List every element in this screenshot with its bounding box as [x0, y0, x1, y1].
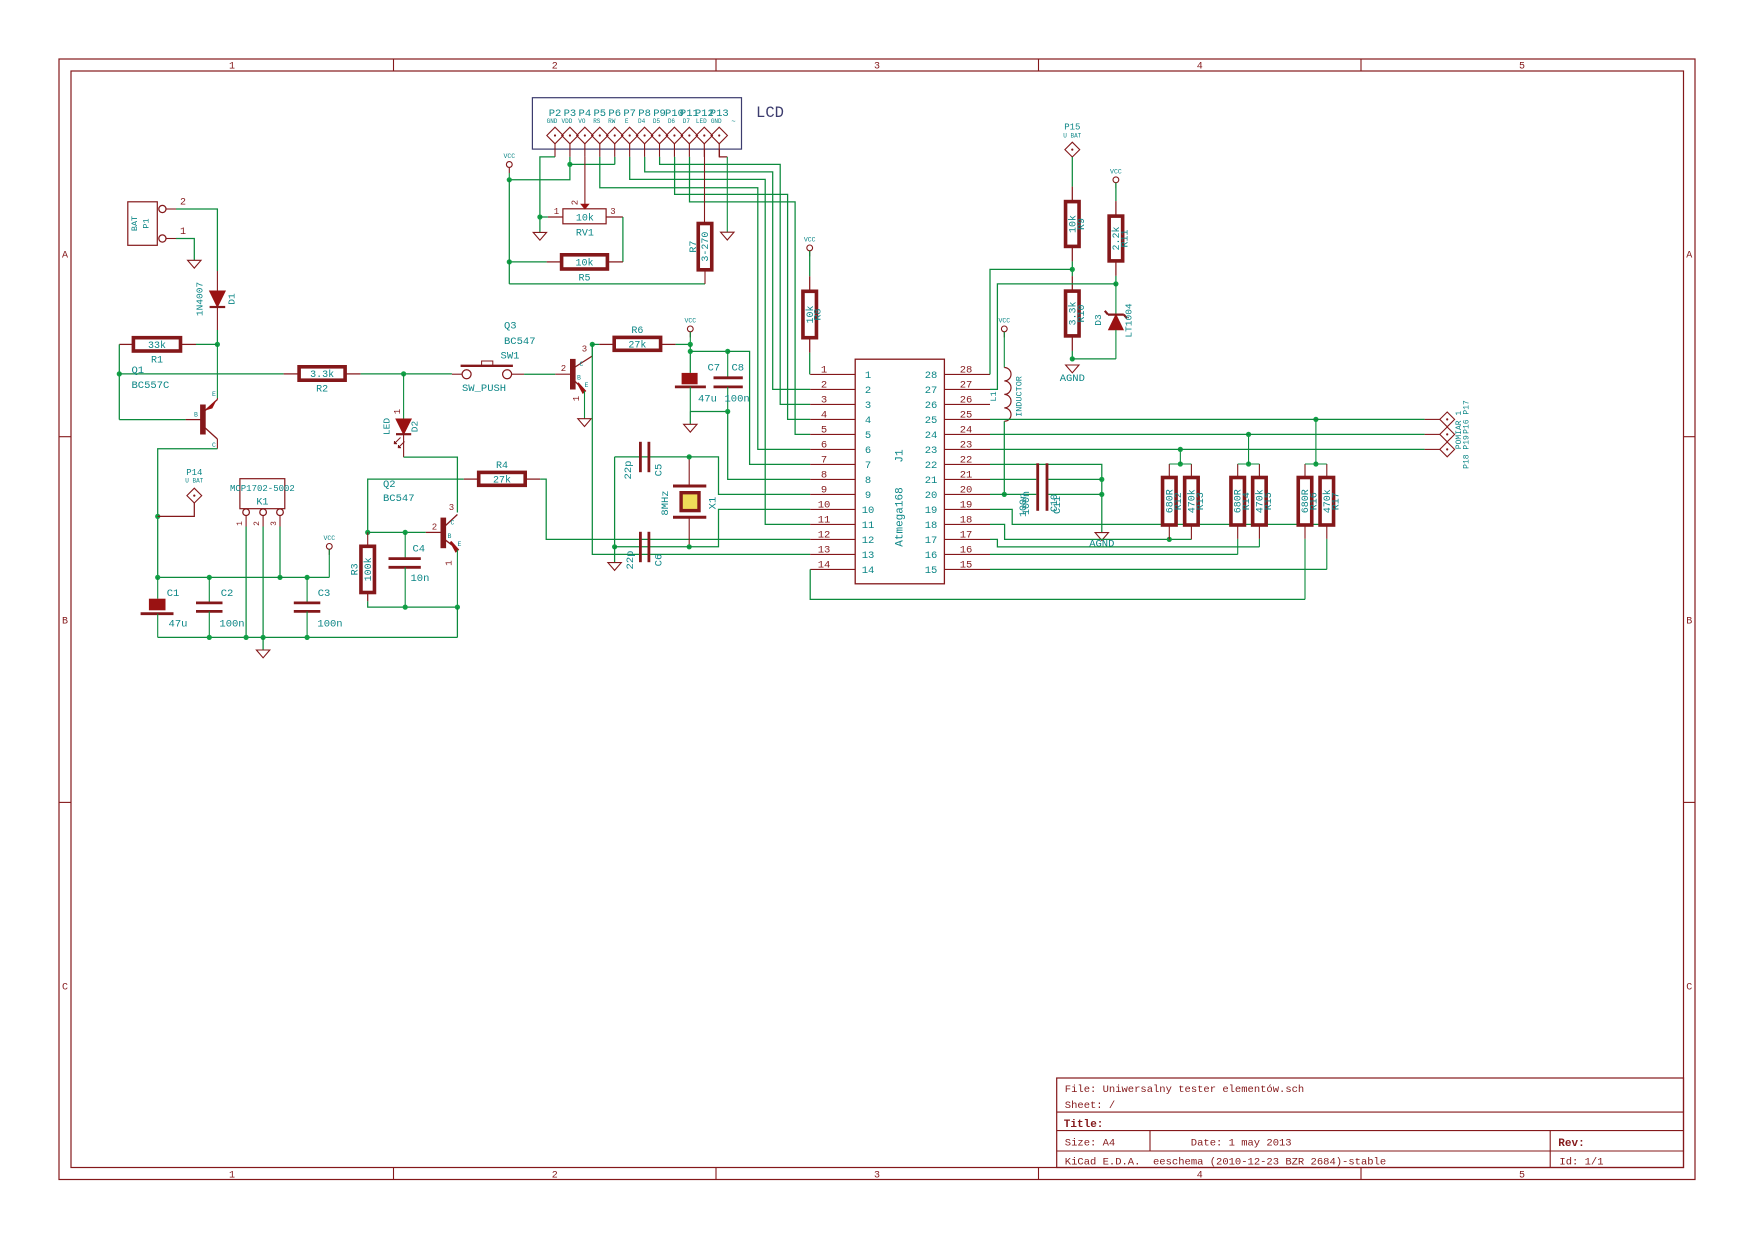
wire R14 bottom stub [1237, 525, 1239, 539]
LCD pin stub [629, 144, 631, 157]
wire P8 to pin2 [645, 157, 811, 390]
svg-text:3: 3 [874, 1171, 880, 1182]
wire gnd rail to pin8 [728, 412, 811, 480]
R10 bottom pin [1071, 336, 1073, 351]
wire pin22 to AGND [990, 464, 1102, 532]
IC U1 J1 Atmega168 [855, 359, 944, 584]
ground AGND (divider) [1066, 365, 1079, 373]
pin 7 [810, 463, 855, 465]
capacitor C10/C11 100n [1019, 463, 1064, 517]
pin 21 [944, 478, 990, 480]
node D1/R1/Q1e [215, 342, 220, 347]
switch SW1 SW_PUSH [461, 351, 520, 396]
wire pin20 to C11 [990, 493, 1036, 495]
svg-text:9: 9 [865, 490, 871, 502]
resistor R14 680R [1231, 478, 1253, 526]
svg-text:VDD: VDD [562, 118, 573, 125]
svg-text:R3: R3 [351, 563, 362, 575]
svg-text:VCC: VCC [998, 317, 1010, 324]
svg-text:Id: 1/1: Id: 1/1 [1559, 1157, 1603, 1169]
svg-text:5: 5 [865, 430, 871, 442]
svg-text:2: 2 [571, 200, 581, 205]
svg-text:BAT: BAT [130, 216, 140, 231]
LCD pin P9 diamond [651, 127, 667, 144]
wire R9 to R10 [1071, 261, 1073, 276]
svg-text:13: 13 [818, 544, 831, 556]
svg-text:25: 25 [925, 415, 938, 427]
resistor R8 [803, 291, 825, 337]
svg-text:4: 4 [1197, 1171, 1203, 1182]
svg-text:21: 21 [960, 469, 973, 481]
svg-text:23: 23 [925, 445, 938, 457]
pin stub P16-19 [1425, 448, 1440, 450]
capacitor C5 22p [623, 442, 666, 480]
svg-text:100k: 100k [363, 557, 375, 581]
svg-text:P18 P19: P18 P19 [1463, 435, 1472, 469]
resistor R7 value 3-270 [689, 224, 712, 270]
pin 9 [810, 493, 855, 495]
wire L1 to pin20 [1003, 421, 1005, 494]
wire P2 to GND/RV1 [540, 157, 555, 233]
svg-text:P16 P17: P16 P17 [1463, 400, 1472, 434]
node RV1 pin1 junction [537, 214, 542, 219]
svg-text:C11: C11 [1053, 496, 1064, 514]
LCD pin P3 diamond [562, 127, 578, 144]
svg-text:C1: C1 [167, 588, 180, 600]
pin 26 [944, 403, 990, 405]
Q2 base pin [426, 531, 441, 533]
wire R11 bottom [1115, 276, 1117, 284]
svg-text:E: E [212, 391, 216, 398]
node Q3c/R6 [590, 342, 595, 347]
svg-text:C: C [1686, 983, 1692, 994]
pin stub P16-19 [1425, 418, 1440, 420]
capacitor C7 47u [675, 363, 720, 412]
svg-text:L1: L1 [989, 391, 999, 401]
wire P4 to RV1 wiper [584, 157, 586, 204]
R8 bottom pin [809, 338, 811, 353]
pin stub [1190, 464, 1192, 478]
LCD pin stub [614, 144, 616, 157]
svg-text:4: 4 [865, 415, 871, 427]
ground (battery) [188, 260, 201, 268]
pin stub [1326, 464, 1328, 478]
svg-text:R4: R4 [496, 461, 508, 472]
LCD pin stub [644, 144, 646, 157]
svg-text:26: 26 [960, 394, 973, 406]
wire R6 right to VCC [676, 343, 691, 345]
ground (crystal) [608, 563, 621, 571]
svg-text:R13: R13 [1196, 492, 1207, 510]
LCD pin stub [599, 144, 601, 157]
node D2 branch [401, 371, 406, 376]
wire VCC to pin7 [728, 351, 811, 464]
svg-text:VCC: VCC [323, 535, 335, 542]
wire R5 left [509, 261, 546, 263]
svg-text:VCC: VCC [1110, 168, 1122, 175]
svg-text:D3: D3 [1093, 314, 1104, 326]
title block [1057, 1078, 1684, 1169]
svg-text:1: 1 [180, 227, 186, 238]
svg-text:20: 20 [960, 484, 973, 496]
node gnd stem [261, 635, 266, 640]
pin 23 [944, 448, 990, 450]
wire R16 bottom [1304, 539, 1306, 600]
wire pair bridge [1169, 463, 1191, 465]
LCD pin P8 diamond [636, 127, 652, 144]
svg-text:14: 14 [818, 559, 831, 571]
pin stub [1304, 464, 1306, 478]
SW1 pin 1 stub [452, 373, 462, 375]
svg-text:13: 13 [862, 550, 875, 562]
svg-text:Rev:: Rev: [1558, 1138, 1584, 1150]
wire R15 bottom [1258, 539, 1260, 547]
connector P14 U_BAT [158, 468, 204, 516]
resistor R3 [351, 546, 375, 592]
svg-text:C3: C3 [318, 588, 331, 600]
wire test row [990, 418, 1425, 420]
capacitor C8 100n [714, 351, 750, 411]
connector LCD [532, 98, 741, 149]
wire test row [990, 433, 1425, 435]
K1 pin2 stub [262, 516, 264, 527]
svg-text:C: C [62, 983, 68, 994]
svg-text:BC547: BC547 [504, 336, 536, 348]
wire P10 to pin4 [675, 157, 811, 420]
potentiometer RV1 [554, 200, 616, 240]
svg-text:18: 18 [960, 514, 973, 526]
resistor R4 [479, 461, 526, 486]
wire down to C7 [689, 344, 691, 373]
wire gnd stem [262, 637, 264, 650]
svg-text:10: 10 [862, 505, 875, 517]
svg-text:D1: D1 [227, 293, 238, 305]
svg-text:B: B [1686, 617, 1692, 628]
svg-text:25: 25 [960, 409, 973, 421]
svg-text:16: 16 [960, 544, 973, 556]
wire C5 row [615, 456, 690, 458]
wire vcc to R8 [809, 251, 811, 276]
svg-text:R6: R6 [631, 326, 643, 337]
pin 16 [944, 553, 990, 555]
wire P3 to VCC rail [509, 157, 570, 180]
svg-text:VO: VO [578, 118, 586, 125]
power VCC (reg out) [323, 535, 335, 555]
wire gnd stem xtal [614, 547, 616, 563]
wire to R6 [592, 343, 599, 345]
svg-text:Q2: Q2 [383, 479, 396, 491]
pin 6 [810, 448, 855, 450]
LCD pin P12 diamond [696, 127, 712, 144]
LCD pin P5 diamond [592, 127, 608, 144]
wire D1 to node [216, 330, 218, 344]
svg-text:LT1004: LT1004 [1124, 303, 1135, 338]
svg-text:6: 6 [865, 445, 871, 457]
svg-text:7: 7 [865, 460, 871, 472]
svg-text:R5: R5 [578, 274, 590, 285]
svg-text:3: 3 [270, 521, 279, 526]
R11 bottom pin [1115, 261, 1117, 276]
resistor R15 470k [1253, 478, 1275, 526]
svg-text:24: 24 [925, 430, 938, 442]
capacitor C6 22p [625, 532, 666, 570]
svg-text:2: 2 [552, 62, 558, 73]
svg-text:1: 1 [572, 396, 582, 401]
svg-text:2: 2 [552, 1171, 558, 1182]
svg-text:C7: C7 [708, 363, 721, 375]
wire vcc to L1 [1003, 332, 1005, 368]
svg-text:C5: C5 [654, 464, 666, 477]
svg-text:P15: P15 [1064, 123, 1080, 133]
svg-text:15: 15 [925, 565, 938, 577]
node R3 top [365, 530, 370, 535]
R3 bottom pin [367, 593, 369, 602]
resistor R12 680R [1163, 478, 1185, 526]
wire vcc stem3 [328, 549, 330, 577]
svg-text:27: 27 [960, 379, 973, 391]
wire SW1 to Q3 base [524, 373, 555, 375]
resistor R10 [1066, 291, 1088, 336]
svg-text:U BAT: U BAT [185, 478, 203, 485]
svg-text:SW_PUSH: SW_PUSH [462, 383, 506, 395]
pin 14 [810, 568, 855, 570]
svg-text:Sheet: /: Sheet: / [1065, 1100, 1115, 1112]
resistor R9 [1066, 202, 1088, 247]
wire C5 left down [614, 457, 616, 547]
svg-text:A: A [1686, 251, 1692, 262]
svg-text:B: B [448, 533, 452, 540]
wire P5 to pin6 [600, 157, 810, 450]
svg-text:C: C [580, 361, 584, 368]
svg-text:2: 2 [561, 364, 566, 374]
node C4 top [403, 530, 408, 535]
power VCC (C7) [684, 317, 696, 337]
wire pair bridge [1305, 463, 1327, 465]
svg-text:15: 15 [960, 559, 973, 571]
svg-text:5: 5 [821, 424, 827, 436]
svg-text:3-270: 3-270 [701, 232, 712, 262]
wire C6 row [615, 546, 690, 548]
svg-text:10k: 10k [575, 257, 593, 269]
pin 25 [944, 418, 990, 420]
power VCC (L1) [998, 317, 1010, 337]
wire pin19 to R17 [990, 509, 1327, 524]
svg-text:INDUCTOR: INDUCTOR [1015, 376, 1025, 417]
svg-text:RV1: RV1 [576, 229, 594, 240]
svg-text:22: 22 [960, 454, 973, 466]
svg-text:MCP1702-5002: MCP1702-5002 [230, 484, 295, 494]
diode D1 1N4007 [195, 271, 238, 330]
wire bottom gnd rail [158, 636, 458, 638]
wire pair bridge [1238, 463, 1260, 465]
node XTAL top [687, 454, 692, 459]
svg-text:Title:: Title: [1064, 1119, 1104, 1131]
svg-text:27: 27 [925, 385, 938, 397]
svg-text:R2: R2 [316, 385, 328, 396]
svg-text:12: 12 [862, 535, 875, 547]
svg-text:R1: R1 [151, 356, 163, 367]
wire pin18 to R13 [990, 524, 1191, 539]
R5 left pin [547, 261, 562, 263]
svg-text:AGND: AGND [1089, 539, 1114, 551]
LCD pin stub [673, 144, 675, 157]
ground [533, 232, 546, 240]
wire vcc stem2 [689, 332, 691, 345]
svg-text:26: 26 [925, 400, 938, 412]
svg-text:3: 3 [610, 207, 615, 217]
svg-text:8MHz: 8MHz [660, 490, 672, 515]
node R9/R10 [1070, 267, 1075, 272]
wire P6 to P3 vertical [570, 163, 615, 165]
svg-text:100n: 100n [725, 394, 750, 406]
svg-text:C4: C4 [413, 544, 426, 556]
svg-text:VCC: VCC [804, 236, 816, 243]
svg-text:3: 3 [582, 345, 587, 355]
svg-text:24: 24 [960, 424, 973, 436]
svg-text:8: 8 [821, 469, 827, 481]
connector P15 U_BAT [1063, 123, 1081, 158]
svg-text:6: 6 [821, 439, 827, 451]
wire RV1 pin3 down [622, 217, 624, 262]
R9 top pin [1071, 187, 1073, 202]
svg-text:C: C [212, 442, 216, 449]
node R1/row [117, 371, 122, 376]
pin 19 [944, 508, 990, 510]
LCD pin stub [703, 144, 705, 157]
wire R4 to pin12 [540, 479, 810, 539]
pin 3 [810, 403, 855, 405]
power VCC (LCD) [503, 153, 515, 173]
pin 13 [810, 553, 855, 555]
node K1 pin1 gnd [244, 635, 249, 640]
wire R12 bottom [1168, 525, 1170, 539]
svg-text:22p: 22p [625, 551, 637, 570]
voltage regulator K1 MCP1702-5002 [230, 479, 295, 526]
svg-text:1: 1 [229, 1171, 235, 1182]
pin 22 [944, 463, 990, 465]
wire R15 bottom stub [1258, 525, 1260, 539]
svg-text:SW1: SW1 [501, 351, 520, 363]
R2 right pin [345, 373, 361, 375]
svg-text:17: 17 [960, 529, 973, 541]
wire R14 bottom [1237, 539, 1239, 555]
LED D2 [382, 374, 421, 457]
SW1 pin 2 stub [512, 373, 524, 375]
wire XTAL2 to pin10 [689, 509, 810, 546]
wire R17 bottom stub [1326, 525, 1328, 539]
LCD pin P13 diamond [711, 127, 727, 144]
resistor R1 [133, 338, 180, 367]
transistor Q1 BC557C [119, 344, 217, 449]
node R12 bottom [1167, 537, 1172, 542]
resistor R11 [1109, 216, 1131, 261]
ground (C7/C8) [684, 424, 697, 432]
wire K1 pin3 to vcc rail [279, 527, 281, 578]
svg-text:R9: R9 [1077, 218, 1088, 230]
svg-text:LED: LED [696, 118, 707, 125]
svg-text:1: 1 [236, 521, 245, 526]
pin stub P16-19 [1425, 433, 1440, 435]
wire C7/C8 bottom rail [690, 411, 727, 413]
node C2 bottom [207, 635, 212, 640]
svg-text:RS: RS [593, 118, 601, 125]
svg-text:AGND: AGND [1060, 373, 1085, 385]
capacitor C4 10n [389, 532, 430, 607]
svg-text:BC557C: BC557C [132, 380, 170, 392]
svg-text:2: 2 [865, 385, 871, 397]
LCD pin stub [688, 144, 690, 157]
wire pin14 to R16 [810, 569, 1305, 599]
wire R3 bottom / gnd rail upper [368, 601, 458, 607]
wire vcc stem [508, 173, 510, 180]
svg-text:2: 2 [253, 521, 262, 526]
svg-text:~: ~ [731, 119, 735, 127]
svg-text:D2: D2 [410, 421, 421, 433]
wire pin28 to divider [990, 269, 1072, 374]
svg-text:K1: K1 [256, 498, 268, 509]
svg-text:C6: C6 [654, 554, 666, 567]
svg-text:10n: 10n [411, 573, 430, 585]
svg-text:J1: J1 [895, 449, 907, 463]
LCD pin stub [554, 144, 556, 157]
svg-text:19: 19 [925, 505, 938, 517]
svg-text:C8: C8 [732, 363, 745, 375]
R10 top pin [1071, 276, 1073, 291]
node Q2e rail [455, 605, 460, 610]
node C10 right [1099, 477, 1104, 482]
power VCC (R11) [1110, 168, 1122, 188]
wire P9 to pin3 [660, 157, 811, 405]
svg-text:3: 3 [821, 394, 827, 406]
wire pair to test pin row [1179, 449, 1181, 464]
svg-text:P14: P14 [186, 468, 202, 478]
svg-text:C: C [451, 520, 455, 527]
node C8 bottom [725, 409, 730, 414]
R6 right pin [661, 343, 676, 345]
svg-text:R11: R11 [1120, 229, 1131, 247]
wire VCC rail down [508, 180, 510, 284]
wire P1 pin2 to D1 [176, 209, 217, 271]
svg-text:C2: C2 [221, 588, 234, 600]
resistor R17 470k [1320, 478, 1342, 526]
wire K1 pin1 to gnd rail [245, 527, 247, 638]
wire pin15 to R17 bottom [990, 568, 1327, 570]
pin 18 [944, 523, 990, 525]
svg-text:P1: P1 [142, 218, 152, 228]
wire R10 bottom [1071, 351, 1073, 359]
wire gnd stem [689, 412, 691, 425]
svg-text:2: 2 [821, 379, 827, 391]
R1 right pin [181, 343, 197, 345]
LCD pin P10 diamond [666, 127, 682, 144]
svg-text:7: 7 [821, 454, 827, 466]
ground AGND (caps) [1095, 533, 1108, 541]
wire Vin/VCC top rail [158, 576, 330, 578]
svg-text:16: 16 [925, 550, 938, 562]
node XTAL bottom [687, 544, 692, 549]
svg-text:U BAT: U BAT [1063, 133, 1081, 140]
node C7/C8 row [688, 349, 693, 354]
wire base row [368, 531, 406, 533]
svg-text:E: E [458, 541, 462, 548]
R5 right pin [607, 261, 623, 263]
svg-text:R15: R15 [1264, 492, 1275, 510]
pin stub [1168, 464, 1170, 478]
K1 pin3 stub [279, 516, 281, 527]
svg-text:X1: X1 [708, 497, 720, 510]
svg-text:100n: 100n [1022, 491, 1033, 515]
wire C7/C8 top rail [690, 350, 727, 352]
